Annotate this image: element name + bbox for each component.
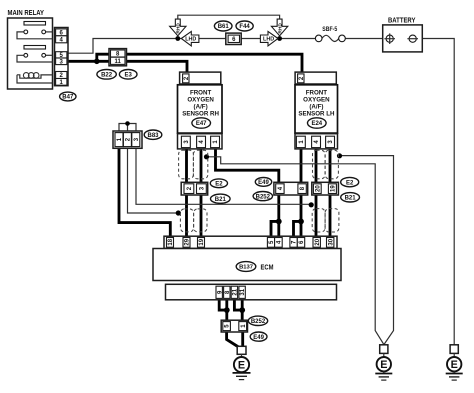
svg-text:19: 19 bbox=[331, 185, 337, 192]
svg-text:B47: B47 bbox=[62, 95, 74, 101]
svg-text:B252: B252 bbox=[251, 319, 266, 325]
svg-text:20: 20 bbox=[315, 238, 321, 245]
svg-text:20: 20 bbox=[315, 185, 321, 192]
svg-text:LHD: LHD bbox=[185, 37, 196, 43]
svg-text:E2: E2 bbox=[346, 180, 354, 186]
svg-text:SENSOR RH: SENSOR RH bbox=[182, 111, 219, 118]
svg-text:B83: B83 bbox=[147, 133, 159, 139]
svg-text:21: 21 bbox=[233, 288, 239, 295]
svg-text:11: 11 bbox=[115, 59, 122, 65]
svg-text:B21: B21 bbox=[345, 196, 357, 202]
svg-text:B137: B137 bbox=[239, 265, 253, 271]
svg-text:MAIN RELAY: MAIN RELAY bbox=[8, 8, 45, 17]
svg-text:E: E bbox=[238, 360, 245, 372]
svg-text:(A/F): (A/F) bbox=[309, 103, 323, 110]
svg-text:RHD: RHD bbox=[277, 23, 283, 34]
svg-text:ECM: ECM bbox=[261, 264, 274, 271]
svg-text:29: 29 bbox=[185, 238, 191, 245]
svg-text:18: 18 bbox=[168, 238, 174, 245]
svg-text:E3: E3 bbox=[125, 73, 133, 79]
svg-text:SENSOR LH: SENSOR LH bbox=[298, 111, 335, 118]
svg-text:BATTERY: BATTERY bbox=[388, 16, 416, 25]
svg-text:LHD: LHD bbox=[263, 37, 274, 43]
svg-text:(A/F): (A/F) bbox=[194, 103, 208, 110]
svg-text:31: 31 bbox=[240, 288, 246, 295]
svg-text:E49: E49 bbox=[253, 335, 264, 341]
svg-text:30: 30 bbox=[328, 238, 334, 245]
svg-text:SBF-5: SBF-5 bbox=[322, 26, 337, 33]
svg-text:19: 19 bbox=[199, 238, 205, 245]
svg-text:E: E bbox=[380, 359, 387, 371]
svg-text:F44: F44 bbox=[239, 24, 250, 30]
svg-text:E: E bbox=[451, 359, 458, 371]
svg-text:B61: B61 bbox=[218, 24, 230, 30]
svg-text:B21: B21 bbox=[215, 197, 227, 203]
svg-text:E47: E47 bbox=[196, 121, 207, 127]
svg-text:B252: B252 bbox=[256, 194, 271, 200]
svg-text:E24: E24 bbox=[311, 121, 322, 127]
svg-text:RHD: RHD bbox=[176, 23, 182, 34]
svg-text:B22: B22 bbox=[101, 73, 113, 79]
svg-text:E49: E49 bbox=[258, 180, 269, 186]
svg-text:E2: E2 bbox=[215, 182, 223, 188]
